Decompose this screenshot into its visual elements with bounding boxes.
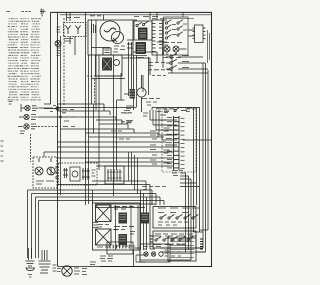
junction labels — [148, 70, 196, 112]
right rocker switches — [166, 53, 208, 70]
center wire labels — [62, 63, 166, 190]
vertical wire bus (center) — [114, 42, 132, 196]
broil light switch row — [18, 124, 57, 129]
title/header fine print — [7, 9, 46, 17]
wire gauge labels (center) — [126, 106, 166, 164]
fan motors (dashed enclosure) — [31, 134, 61, 188]
motor M1 windings — [100, 21, 124, 44]
relay K1 coil — [139, 28, 148, 39]
horizontal bus wires (lower) — [28, 190, 165, 258]
left margin wire labels — [1, 131, 26, 161]
terminal strip TB1 — [188, 25, 210, 63]
motor terminal block — [103, 40, 133, 55]
vertical wire bus (right-center) — [134, 52, 173, 250]
selector switch cluster — [57, 18, 87, 56]
schematic frame border — [44, 12, 212, 266]
bake element E1 — [92, 203, 140, 250]
power cord wires — [29, 248, 134, 267]
pilot lamp — [55, 41, 61, 47]
wire drops to lower bus — [57, 152, 150, 200]
infinite switch bank lower — [150, 231, 198, 248]
terminal block TB2 — [100, 242, 146, 262]
left frame junction — [44, 106, 62, 119]
timer connector block — [134, 17, 163, 56]
mid harness labels — [111, 113, 148, 139]
element area labels — [97, 225, 135, 248]
convection motor — [57, 262, 96, 276]
horizontal bus wires (upper) — [87, 20, 208, 76]
element switch contacts — [114, 205, 149, 250]
bottom-right wire bends — [140, 230, 208, 260]
terminal block TB4 — [168, 238, 206, 261]
relay K2 coil — [133, 43, 147, 58]
motor box — [88, 16, 133, 55]
clock motor — [117, 75, 147, 113]
notes text block (rotated fine print) — [8, 18, 41, 100]
vertical wire bus (center-left) — [86, 12, 104, 200]
broil element E2 — [96, 229, 112, 245]
harness fan-in wires — [150, 110, 211, 145]
control panel box — [160, 12, 194, 55]
vertical wire bus (right) — [172, 63, 208, 260]
terminal block TB3 — [140, 244, 170, 262]
horizontal bus wires (middle) — [57, 79, 200, 166]
plug terminals — [39, 261, 57, 273]
surface light switch row — [9, 102, 54, 113]
door latch assembly (dashed box) — [56, 163, 97, 185]
connector P3 — [105, 166, 124, 184]
connector ladder J2 — [162, 107, 196, 172]
oven light switch row — [19, 114, 57, 119]
relay K1 contacts — [134, 12, 157, 40]
oven thermostat — [163, 46, 187, 58]
connector P1 — [92, 48, 151, 79]
infinite switch bank upper — [153, 207, 200, 229]
vertical wire bus (left) — [61, 12, 76, 195]
ground symbol — [26, 261, 35, 277]
